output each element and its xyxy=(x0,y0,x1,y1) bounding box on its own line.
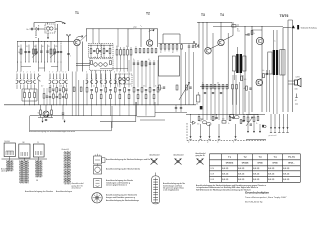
title number xyxy=(245,201,263,203)
connector strip S1 xyxy=(7,161,14,172)
resistor R2 xyxy=(32,49,34,54)
wire junction dots xyxy=(17,22,262,115)
pcb dashed bus xyxy=(187,123,266,141)
label pnp xyxy=(134,26,142,29)
switch S1 band contacts left xyxy=(16,72,68,84)
strip S5 text xyxy=(163,182,185,192)
connector hookup xyxy=(295,94,298,105)
transformer TR1 windings xyxy=(232,56,246,71)
wire T1 emitter stem xyxy=(76,46,78,72)
coil L5 IF2 dashed box xyxy=(116,74,132,84)
wire right corner left block xyxy=(72,72,83,116)
svg-text:ckverbind: ckverbind xyxy=(72,187,82,189)
label KB xyxy=(36,180,38,182)
capacitor C25 xyxy=(245,33,249,37)
transformer TR2 core xyxy=(273,50,278,75)
capacitor C2 xyxy=(24,52,26,53)
svg-text:10k: 10k xyxy=(196,104,199,106)
svg-text:0,8 -1,5: 0,8 -1,5 xyxy=(253,174,259,176)
wire stems xyxy=(48,24,58,42)
coil pack P1 inner xyxy=(6,151,14,155)
resistor R41 xyxy=(244,86,248,90)
svg-text:GF100: GF100 xyxy=(257,163,262,165)
band labels xyxy=(41,85,157,87)
svg-text:3: 3 xyxy=(23,72,24,74)
svg-text:sbeleg: sbeleg xyxy=(1,171,8,173)
svg-text:100: 100 xyxy=(222,119,225,121)
connector car-antenna plug xyxy=(62,22,66,24)
wire T1 collector up xyxy=(80,35,86,41)
svg-text:6,8: 6,8 xyxy=(60,43,62,45)
printed circuit marker xyxy=(283,25,317,30)
resistor R38 xyxy=(251,31,255,36)
antenna ANT xyxy=(67,34,70,42)
svg-text:Regler: Regler xyxy=(200,118,205,120)
resistor R7 xyxy=(51,110,53,115)
wire IF1 drops xyxy=(91,58,111,80)
coil L1 ferrite antenna box xyxy=(45,23,55,34)
resistor R33 xyxy=(212,115,214,121)
svg-text:MF: MF xyxy=(23,142,25,144)
transformer TR1 core xyxy=(236,54,242,73)
svg-text:0,8 -1,5: 0,8 -1,5 xyxy=(238,179,244,181)
capacitor C5 xyxy=(46,51,48,52)
svg-text:GF121...: GF121... xyxy=(288,163,295,165)
svg-text:2: 2 xyxy=(27,72,28,74)
coil pack P2 xyxy=(19,142,30,160)
wire TR2 bottom leads xyxy=(274,75,278,114)
svg-text:40: 40 xyxy=(42,46,44,48)
wire bus verticals xyxy=(92,102,146,128)
svg-text:4k7: 4k7 xyxy=(295,100,297,102)
component group x130-158 upper xyxy=(100,59,155,69)
resistor R36 xyxy=(256,115,259,126)
capacitor C13 xyxy=(62,105,64,120)
svg-text:4k5: 4k5 xyxy=(244,79,246,81)
legend cross-tool A xyxy=(150,153,161,164)
transistor T1 xyxy=(74,39,80,45)
caption switch view xyxy=(25,190,73,193)
wire IF3 input box xyxy=(163,34,180,44)
svg-text:GF100: GF100 xyxy=(272,163,277,165)
svg-text:0,8 -1,5: 0,8 -1,5 xyxy=(253,179,259,181)
capacitor C6 xyxy=(57,52,59,53)
wire box corner right of bus xyxy=(137,102,165,120)
potentiometer arrow xyxy=(179,82,190,100)
svg-text:0,8 -1,5: 0,8 -1,5 xyxy=(222,179,228,181)
svg-text:10k: 10k xyxy=(217,83,220,85)
resistor row above box xyxy=(160,44,194,54)
legend square symbol xyxy=(94,179,102,188)
svg-text:T1: T1 xyxy=(75,11,79,15)
svg-text:25: 25 xyxy=(246,35,248,37)
svg-text:Anschlussbelegung der Steckver: Anschlussbelegung der Steckverbindungen … xyxy=(29,130,75,133)
capacitor C30 electrolytic xyxy=(201,119,207,124)
agc curl T1 xyxy=(76,36,83,39)
table footnotes xyxy=(196,184,266,192)
resistor R42 xyxy=(263,74,265,78)
resistor R3 xyxy=(35,49,37,54)
svg-text:Bu: Bu xyxy=(27,29,29,31)
component band mid resistors capacitors xyxy=(86,60,159,105)
svg-text:40: 40 xyxy=(116,46,118,48)
wire main bus B xyxy=(30,115,137,117)
resistor row under T2 xyxy=(135,46,157,53)
svg-text:1: 1 xyxy=(59,72,60,74)
wire drops x117-131 xyxy=(117,60,131,72)
svg-text:3: 3 xyxy=(114,72,115,74)
wire tuner top rail xyxy=(18,38,74,42)
svg-text:10n: 10n xyxy=(143,85,146,87)
diode D2 detector xyxy=(193,42,199,48)
wire antenna stem xyxy=(68,42,70,71)
junction dots xyxy=(35,31,38,38)
connector strip S2 xyxy=(20,161,29,184)
svg-text:Grundschaltplan: Grundschaltplan xyxy=(245,190,269,194)
capacitor C36 electrolytic xyxy=(229,114,234,117)
svg-text:GF195 66: GF195 66 xyxy=(226,163,234,165)
svg-text:T4: T4 xyxy=(220,13,224,17)
label NF solid xyxy=(200,106,203,109)
node label T1 xyxy=(75,11,79,15)
svg-text:Anschlussbelegung der Steckver: Anschlussbelegung der Steckverbindunge xyxy=(106,199,139,202)
svg-text:0,1: 0,1 xyxy=(135,46,137,48)
svg-text:1: 1 xyxy=(34,72,35,74)
svg-text:4k7: 4k7 xyxy=(41,85,43,87)
svg-text:dungen und Kontakte gemessen g: dungen und Kontakte gemessen g xyxy=(106,196,136,199)
svg-text:5k: 5k xyxy=(38,112,40,114)
svg-text:100: 100 xyxy=(34,46,37,48)
wire T2 base feed xyxy=(128,29,134,47)
wire tuner verticals xyxy=(18,42,62,63)
node label T2 xyxy=(146,12,150,16)
wire bottom arrows right xyxy=(269,114,289,137)
wire T2 right corner xyxy=(156,29,158,47)
svg-text:0,1: 0,1 xyxy=(93,85,95,87)
svg-text:1n: 1n xyxy=(131,85,133,87)
filter F2 dashed box xyxy=(102,44,114,58)
svg-text:3: 3 xyxy=(49,72,50,74)
svg-text:Anschlussbelegung der Steckve: Anschlussbelegung der Steckve xyxy=(25,190,53,193)
diode D1 xyxy=(35,28,39,31)
wire NF rail xyxy=(155,113,265,115)
svg-text:0,8 -1,5: 0,8 -1,5 xyxy=(283,168,289,170)
volume potentiometer xyxy=(196,92,200,106)
svg-text:4k: 4k xyxy=(244,88,246,90)
legend text 3 xyxy=(106,179,134,187)
capacitor C3 xyxy=(28,52,30,53)
capacitor C33 pair xyxy=(175,105,182,112)
resistor pair NF xyxy=(232,85,238,105)
ground ferrite xyxy=(47,37,49,40)
connector strip S3 xyxy=(36,161,43,178)
capacitor C7 xyxy=(60,52,62,53)
wire det drops xyxy=(203,89,227,120)
resistor R6 xyxy=(38,110,42,115)
text strip side xyxy=(72,182,84,189)
capacitor C37 electrolytic xyxy=(235,116,240,119)
switch S1 band contacts mid xyxy=(86,72,126,84)
wire speaker leads xyxy=(288,81,295,84)
wire curve to jack xyxy=(54,21,62,22)
capacitor C12 xyxy=(45,120,47,121)
svg-text:0,8 -1,5: 0,8 -1,5 xyxy=(222,168,228,170)
IF amp resistor group xyxy=(116,46,132,60)
svg-text:Anschlussbelegung der Steckver: Anschlussbelegung der Steckverbindu xyxy=(106,167,141,170)
wire tuner jogs xyxy=(17,67,58,82)
wire T2 collector loop xyxy=(141,29,150,47)
resistor R9 xyxy=(73,87,75,91)
wire right horis xyxy=(213,20,293,30)
connector arrow osc B xyxy=(64,120,66,123)
svg-text:220: 220 xyxy=(47,26,50,28)
transistor T6 xyxy=(256,79,263,86)
resistor R4 xyxy=(50,49,52,54)
capacitor C1 xyxy=(27,28,35,31)
svg-text:8,2: 8,2 xyxy=(26,46,28,48)
resistor R39 on rail xyxy=(231,23,236,27)
capacitor row detector xyxy=(204,93,222,94)
capacitor C31 electrolytic xyxy=(207,123,211,126)
svg-text:4: 4 xyxy=(16,72,17,74)
coil pack P1 xyxy=(4,141,15,160)
svg-text:0,8Ω: 0,8Ω xyxy=(295,89,298,91)
label cluster values xyxy=(18,43,62,48)
wire top rail T3T4 xyxy=(197,23,232,89)
resistor R5 xyxy=(54,49,58,54)
capacitor C41 xyxy=(249,88,251,89)
svg-text:220: 220 xyxy=(47,31,50,33)
svg-text:0,8 -1,5: 0,8 -1,5 xyxy=(268,168,274,170)
transformer TR2 winding box xyxy=(268,50,285,76)
svg-text:1k: 1k xyxy=(18,52,20,54)
svg-text:0,1: 0,1 xyxy=(148,59,150,61)
wire IF verticals xyxy=(181,33,228,105)
svg-text:messen gegen Chassis m: messen gegen Chassis m xyxy=(106,185,127,187)
diode D3 xyxy=(191,115,196,125)
svg-text:100: 100 xyxy=(197,124,199,126)
capacitor C40 xyxy=(262,70,268,75)
capacitor C35 xyxy=(232,115,234,119)
trimmer C8 arrow xyxy=(32,52,38,58)
legend circle symbol xyxy=(94,164,102,175)
svg-text:10n: 10n xyxy=(262,70,265,72)
coil IF1 tier2 box xyxy=(90,57,114,70)
svg-text:0,8 -1,5: 0,8 -1,5 xyxy=(268,179,274,181)
svg-text:0,8 -1,5: 0,8 -1,5 xyxy=(238,168,244,170)
logo cross-tool C xyxy=(196,152,207,164)
table transistor voltages xyxy=(210,154,301,183)
label Regler xyxy=(200,118,205,122)
svg-text:Gedruckte Schaltung: Gedruckte Schaltung xyxy=(301,27,317,30)
svg-text:15: 15 xyxy=(48,46,50,48)
subcircuit tone control xyxy=(246,115,266,140)
svg-text:KB: KB xyxy=(36,180,38,182)
title Grundschaltplan xyxy=(245,190,269,194)
shield box IF3 xyxy=(159,56,180,76)
wire AGC rail xyxy=(159,43,198,45)
legend text 2 xyxy=(106,167,141,170)
legend arrow-box symbol xyxy=(94,154,106,164)
svg-text:4: 4 xyxy=(30,72,31,74)
legend text 4 xyxy=(106,193,139,201)
note line xyxy=(29,130,75,133)
transistor T5 xyxy=(256,37,263,44)
resistor R34 xyxy=(228,115,231,126)
wire TR1 drop lines xyxy=(233,75,249,115)
node label T4 xyxy=(220,13,224,17)
wire main bus C xyxy=(100,121,136,123)
svg-text:GF125/6: GF125/6 xyxy=(242,163,249,165)
capacitor C34 xyxy=(215,115,217,119)
coil pack P3 xyxy=(33,142,44,160)
wire osc links xyxy=(38,105,53,118)
legend cross-tool B xyxy=(174,153,185,164)
legend text 1 xyxy=(106,158,151,161)
transistor T2 xyxy=(146,40,152,46)
resistor R20 xyxy=(159,85,192,90)
resistor R40 xyxy=(241,76,247,81)
wire tuner bottom stubs xyxy=(18,62,62,72)
svg-text:240-360: 240-360 xyxy=(4,141,10,143)
component band left resistors capacitors xyxy=(17,81,68,105)
svg-text:0,8 -1,5: 0,8 -1,5 xyxy=(268,174,274,176)
svg-text:0,8 -1,5: 0,8 -1,5 xyxy=(238,174,244,176)
svg-text:pnp: pnp xyxy=(134,26,137,28)
svg-text:Anschlussbelegun: Anschlussbelegun xyxy=(56,190,73,193)
label Au xyxy=(237,28,240,33)
pot arrow NF xyxy=(246,117,253,126)
text netz xyxy=(1,168,9,173)
wire AGC rail top xyxy=(87,29,158,47)
connector strip S4 xyxy=(62,149,71,184)
resistor R32 xyxy=(197,115,200,126)
svg-text:6107-86-40.00 Sp: 6107-86-40.00 Sp xyxy=(245,201,263,203)
wire TR1 leads xyxy=(235,47,241,80)
title subtitle xyxy=(245,196,287,199)
svg-text:Volt Widerstand der Wicklungen: Volt Widerstand der Wicklungen Anschluss… xyxy=(196,188,251,191)
wire arrow stems group1 xyxy=(188,124,237,144)
svg-text:0,8 -1,5: 0,8 -1,5 xyxy=(283,179,289,181)
transistor T4 xyxy=(218,39,224,45)
resistor R10 xyxy=(80,87,82,91)
node label T3 xyxy=(201,13,205,17)
connector strip S5 xyxy=(152,173,160,204)
transistor T3 xyxy=(205,48,211,54)
svg-text:Klinkenb.(K): Klinkenb.(K) xyxy=(62,149,70,151)
label node B xyxy=(38,26,40,28)
speaker LS xyxy=(295,77,302,91)
agc curl xyxy=(149,29,155,31)
svg-text:0,8 -1,5: 0,8 -1,5 xyxy=(253,168,259,170)
svg-text:461: 461 xyxy=(94,57,96,59)
svg-text:T3: T3 xyxy=(201,13,205,17)
svg-text:0,8 -1,5: 0,8 -1,5 xyxy=(283,174,289,176)
component cluster x240 xyxy=(240,120,245,124)
svg-text:T2: T2 xyxy=(146,12,150,16)
wire TR2 top leads xyxy=(274,30,278,50)
wire T3-T4 diagonals xyxy=(210,22,233,49)
wire filter rail xyxy=(89,44,114,46)
svg-text:1: 1 xyxy=(20,72,21,74)
svg-text:T5-T6: T5-T6 xyxy=(288,155,295,159)
legend wheel symbol xyxy=(92,193,102,203)
svg-text:40: 40 xyxy=(18,46,20,48)
wire box links xyxy=(39,28,58,30)
svg-text:Trans.=Reisesuperhet „Stern Tr: Trans.=Reisesuperhet „Stern Trophy 1000“ xyxy=(245,196,287,199)
svg-text:125: 125 xyxy=(55,46,58,48)
svg-text:T5/T6: T5/T6 xyxy=(280,14,289,18)
svg-text:s mit eingebautem: s mit eingebautem xyxy=(163,189,180,192)
transistor Q osc xyxy=(43,111,49,117)
svg-text:0,25W: 0,25W xyxy=(296,77,301,79)
node label T5/T6 xyxy=(280,14,289,18)
filter F1 dashed box xyxy=(89,44,102,58)
svg-text:0,8 -1,5: 0,8 -1,5 xyxy=(222,174,228,176)
trimmer C9 arrow xyxy=(50,52,56,58)
svg-text:50: 50 xyxy=(103,85,105,87)
wire main bus A xyxy=(4,104,196,106)
resistor bank detector xyxy=(200,83,228,89)
resistor R35 xyxy=(243,115,245,121)
svg-text:Anschlussbelegung der Steckver: Anschlussbelegung der Steckverbindungen … xyxy=(106,158,151,161)
capacitor antenna coupling xyxy=(67,54,71,58)
filter components xyxy=(90,45,111,57)
chassis line xyxy=(2,158,48,160)
svg-text:Anschlussbelegung der Steckver: Anschlussbelegung der Steckverbi xyxy=(106,193,137,196)
wire chassis link line xyxy=(30,116,112,131)
svg-text:4: 4 xyxy=(86,72,87,74)
wire top feed xyxy=(34,23,54,28)
wire right verticals xyxy=(245,20,293,112)
connector arrow osc A xyxy=(42,118,44,123)
svg-text:40: 40 xyxy=(172,52,174,54)
resistor R31 xyxy=(222,119,226,124)
capacitor C4 xyxy=(40,51,42,52)
svg-text:25: 25 xyxy=(161,88,163,90)
wire mid frame xyxy=(76,42,90,72)
resistor R1 xyxy=(18,49,22,54)
